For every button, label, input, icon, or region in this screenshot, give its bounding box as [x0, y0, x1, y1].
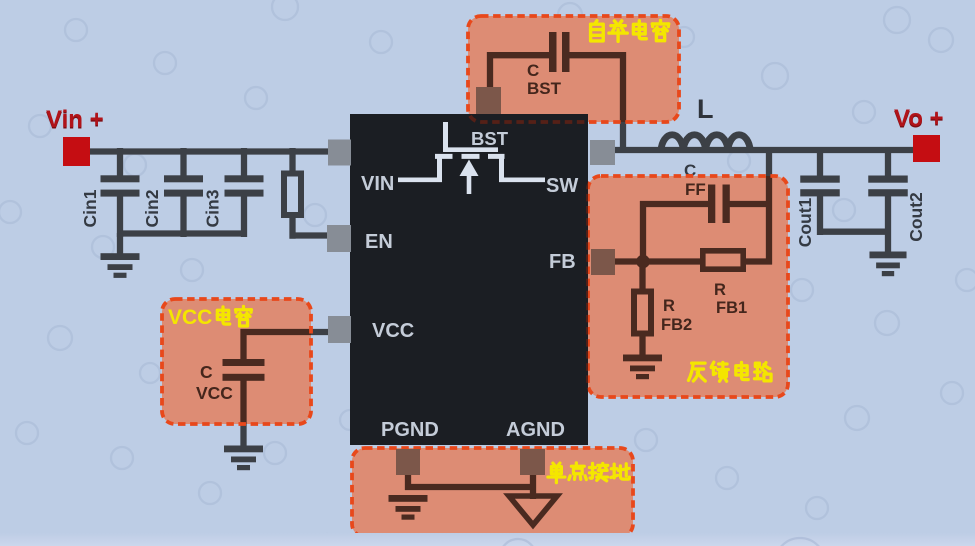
- svg-text:R: R: [663, 297, 675, 315]
- svg-text:PGND: PGND: [381, 419, 439, 441]
- label C VCC: [196, 362, 233, 403]
- svg-text:C: C: [527, 61, 539, 80]
- wire: output capacitor ground bus: [820, 229, 888, 235]
- highlight region fill: single-point ground (单点接地): [352, 448, 633, 537]
- wire: VCC pin to C VCC: [241, 329, 333, 361]
- highlight border: VCC capacitor region: [162, 299, 311, 424]
- svg-text:AGND: AGND: [506, 419, 565, 441]
- ground (output capacitors): [869, 252, 906, 277]
- capacitor C VCC: [223, 359, 265, 381]
- capacitor Cin3: [225, 148, 264, 237]
- ground (AGND, triangle style): [509, 496, 557, 525]
- pin pad VCC: [328, 316, 351, 343]
- svg-text:BST: BST: [471, 128, 509, 149]
- pin pad AGND: [520, 449, 545, 475]
- highlight border: single-point ground region: [352, 448, 633, 537]
- svg-text:C: C: [200, 362, 213, 382]
- pin pad SW: [590, 140, 615, 165]
- IC body (buck converter): [350, 114, 588, 445]
- svg-text:Vo +: Vo +: [894, 105, 944, 132]
- svg-text:VIN: VIN: [361, 173, 394, 195]
- transistor: internal high-side MOSFET: [398, 122, 545, 194]
- svg-text:FB: FB: [549, 251, 576, 273]
- wire: C BST left to BST pin: [487, 52, 549, 89]
- pin pad FB: [591, 249, 615, 275]
- resistor R FB1: [703, 251, 743, 269]
- capacitor Cout1: [800, 147, 840, 235]
- capacitor Cout2: [868, 147, 908, 256]
- label Vin +: [46, 106, 104, 134]
- wire: Vin rail to VIN pin: [90, 148, 332, 154]
- capacitor Cin2: [164, 148, 203, 237]
- svg-text:VCC: VCC: [372, 320, 414, 342]
- highlight border: bootstrap capacitor region: [468, 16, 679, 122]
- label R FB1: [714, 281, 747, 317]
- wire: C BST right to SW node: [569, 52, 623, 151]
- ground (input capacitors): [101, 253, 140, 278]
- wire: ground tie bar PGND-AGND: [405, 484, 533, 490]
- wire: PGND pin down: [405, 473, 411, 490]
- svg-text:Cin1: Cin1: [80, 189, 100, 227]
- highlight border: feedback circuit region: [588, 176, 788, 397]
- svg-text:Cin3: Cin3: [203, 189, 223, 227]
- svg-text:FF: FF: [685, 180, 706, 199]
- pin pad EN: [327, 225, 351, 252]
- wire: node up to C FF: [640, 201, 709, 258]
- wire: C FF right to sense line: [729, 201, 772, 207]
- ground (C VCC): [224, 446, 263, 471]
- highlight region fill: feedback circuit (反馈电路): [588, 176, 788, 397]
- inductor L: [661, 135, 750, 151]
- label C FF: [684, 161, 706, 199]
- wire: stub to input ground: [117, 233, 123, 256]
- resistor (EN pull-up): [284, 148, 301, 239]
- wire: FB pin to node: [612, 258, 703, 264]
- wire: Vout sense line into feedback network: [766, 147, 772, 265]
- wire: C VCC to ground: [240, 379, 246, 449]
- label C BST: [527, 61, 562, 98]
- wire: AGND pin down: [530, 473, 536, 499]
- svg-text:FB1: FB1: [716, 299, 747, 317]
- resistor R FB2: [634, 264, 651, 358]
- svg-text:Cout1: Cout1: [795, 197, 815, 247]
- pin pad BST: [476, 87, 501, 114]
- svg-text:R: R: [714, 281, 726, 299]
- pin pad VIN: [328, 140, 351, 166]
- terminal Vin+ (red pad): [63, 137, 90, 166]
- svg-text:L: L: [697, 94, 714, 124]
- capacitor Cin1: [101, 148, 140, 237]
- svg-text:BST: BST: [527, 79, 562, 98]
- capacitor C BST: [549, 32, 570, 72]
- svg-text:EN: EN: [365, 231, 393, 253]
- highlight region fill: VCC capacitor (VCC电容): [162, 299, 311, 424]
- node FB (junction dot): [636, 255, 650, 269]
- region title 自举电容 (bootstrap capacitor): [591, 20, 669, 41]
- wire: R FB1 to sense line: [744, 258, 772, 264]
- wire: input capacitor ground bus: [117, 230, 247, 236]
- region title 反馈电路 (feedback circuit): [688, 362, 771, 381]
- svg-text:VCC: VCC: [168, 306, 212, 329]
- svg-text:Cout2: Cout2: [906, 192, 926, 242]
- svg-text:SW: SW: [546, 175, 578, 197]
- svg-text:Cin2: Cin2: [142, 189, 162, 227]
- pin pad PGND: [396, 449, 420, 475]
- svg-text:VCC: VCC: [196, 383, 233, 403]
- label R FB2: [661, 297, 692, 334]
- region title 单点接地 (single-point ground): [548, 463, 629, 483]
- wire: SW to Vo rail: [612, 147, 913, 153]
- terminal Vo+ (red pad): [913, 135, 940, 162]
- capacitor C FF (feed-forward): [708, 185, 730, 224]
- svg-text:Vin +: Vin +: [46, 106, 104, 133]
- ground (PGND, bar style): [389, 495, 428, 520]
- wire: EN resistor to EN pin: [290, 232, 333, 238]
- svg-text:FB2: FB2: [661, 316, 692, 334]
- highlight region fill: bootstrap capacitor (自举电容): [468, 16, 679, 122]
- label Vo +: [894, 105, 944, 133]
- ground (R FB2): [623, 355, 662, 380]
